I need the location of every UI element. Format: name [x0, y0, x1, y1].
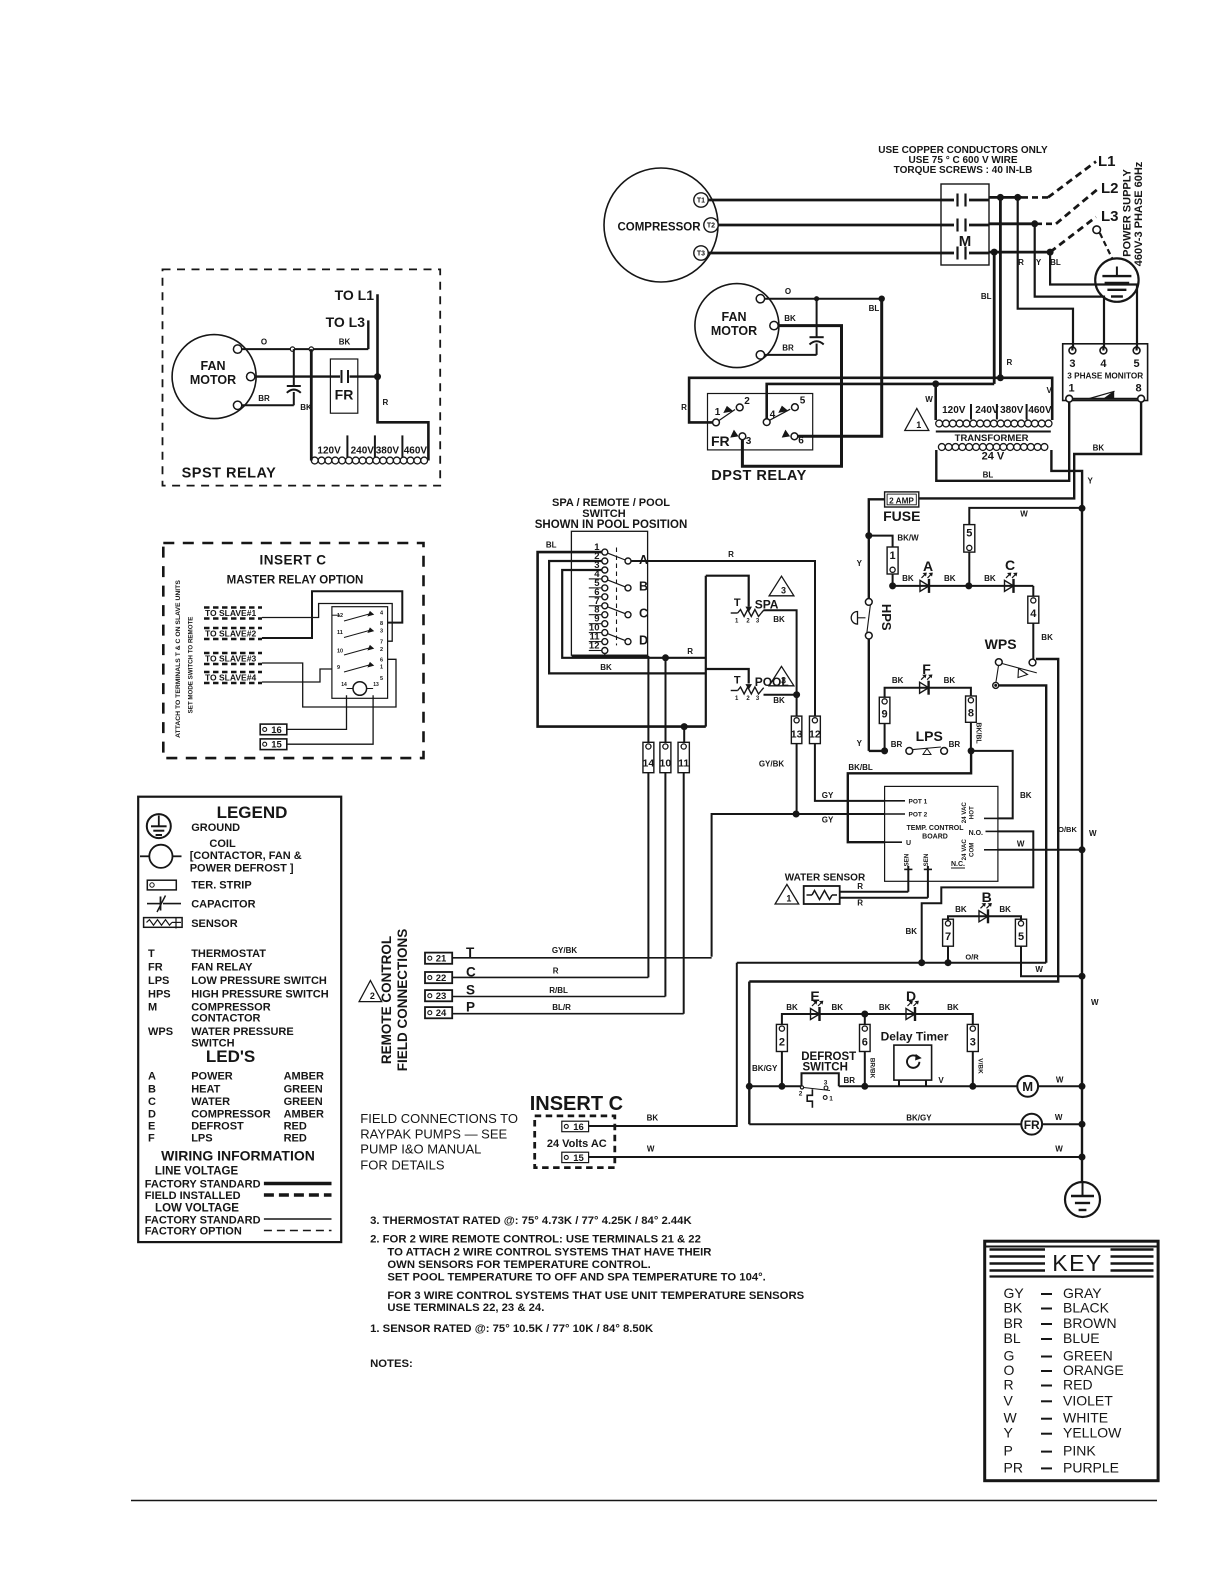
svg-text:LINE VOLTAGE: LINE VOLTAGE — [155, 1166, 239, 1178]
svg-text:GY/BK: GY/BK — [552, 946, 578, 955]
svg-text:GY: GY — [822, 791, 834, 800]
svg-text:N.O.: N.O. — [969, 830, 983, 837]
svg-text:3 PHASE MONITOR: 3 PHASE MONITOR — [1067, 372, 1143, 381]
svg-text:380V: 380V — [376, 446, 400, 457]
svg-text:RED: RED — [284, 1133, 307, 1145]
svg-text:SPST RELAY: SPST RELAY — [182, 466, 277, 482]
svg-text:TER. STRIP: TER. STRIP — [191, 880, 252, 892]
svg-text:MASTER RELAY OPTION: MASTER RELAY OPTION — [227, 575, 364, 587]
svg-text:R: R — [857, 882, 863, 891]
svg-text:CAPACITOR: CAPACITOR — [191, 899, 255, 911]
svg-text:10: 10 — [660, 758, 672, 770]
svg-text:BK: BK — [905, 927, 917, 936]
svg-text:BR: BR — [844, 1076, 856, 1085]
svg-text:PURPLE: PURPLE — [1063, 1459, 1119, 1475]
svg-text:5: 5 — [800, 396, 806, 407]
svg-text:BROWN: BROWN — [1063, 1315, 1117, 1331]
svg-text:4: 4 — [770, 410, 776, 421]
svg-text:GY: GY — [822, 816, 834, 825]
svg-text:WHITE: WHITE — [1063, 1410, 1108, 1426]
svg-text:L3: L3 — [1101, 208, 1119, 225]
svg-text:FAN RELAY: FAN RELAY — [191, 962, 253, 974]
svg-text:FACTORY STANDARD: FACTORY STANDARD — [145, 1179, 261, 1191]
svg-text:BL: BL — [1004, 1330, 1021, 1346]
svg-text:21: 21 — [436, 954, 447, 965]
svg-text:460V: 460V — [1028, 405, 1052, 416]
svg-text:2: 2 — [380, 647, 383, 653]
svg-text:23: 23 — [436, 991, 447, 1002]
svg-text:24 V: 24 V — [982, 451, 1005, 463]
svg-text:BK: BK — [832, 1003, 844, 1012]
svg-text:COMPRESSOR: COMPRESSOR — [191, 1108, 271, 1120]
svg-text:[CONTACTOR, FAN &: [CONTACTOR, FAN & — [190, 850, 302, 862]
svg-text:BK: BK — [944, 676, 956, 685]
svg-text:Y: Y — [857, 559, 863, 568]
svg-text:LPS: LPS — [916, 728, 943, 744]
svg-text:BK: BK — [339, 338, 351, 347]
svg-text:RAYPAK PUMPS — SEE: RAYPAK PUMPS — SEE — [360, 1126, 507, 1141]
svg-text:A: A — [148, 1071, 156, 1083]
svg-text:3: 3 — [824, 1079, 828, 1086]
svg-text:PR: PR — [1004, 1459, 1023, 1475]
svg-text:POT 1: POT 1 — [909, 799, 928, 806]
svg-text:W: W — [1035, 965, 1043, 974]
svg-text:W: W — [1017, 840, 1025, 849]
svg-text:T: T — [734, 675, 741, 687]
svg-text:1: 1 — [715, 407, 721, 418]
svg-text:15: 15 — [573, 1153, 584, 1164]
svg-text:GREEN: GREEN — [284, 1084, 323, 1096]
svg-text:A: A — [639, 553, 648, 567]
svg-text:FAN: FAN — [722, 310, 747, 324]
svg-text:HPS: HPS — [879, 604, 894, 631]
svg-text:BK: BK — [1093, 444, 1105, 453]
svg-text:L2: L2 — [1101, 180, 1119, 197]
svg-text:6: 6 — [862, 1037, 868, 1049]
svg-text:M: M — [148, 1002, 157, 1014]
svg-text:T: T — [734, 597, 741, 609]
svg-text:USE TERMINALS 22, 23 & 24.: USE TERMINALS 22, 23 & 24. — [387, 1302, 544, 1314]
svg-text:BK: BK — [944, 574, 956, 583]
svg-text:BL/R: BL/R — [552, 1003, 571, 1012]
svg-text:V: V — [1004, 1392, 1014, 1408]
svg-text:BK: BK — [1041, 633, 1053, 642]
svg-text:OWN SENSORS FOR TEMPERATURE CO: OWN SENSORS FOR TEMPERATURE CONTROL. — [387, 1259, 650, 1271]
svg-text:6: 6 — [798, 436, 804, 447]
svg-text:FR: FR — [335, 387, 354, 403]
svg-text:BL: BL — [981, 292, 992, 301]
svg-text:9: 9 — [337, 665, 340, 671]
svg-text:R: R — [681, 403, 687, 412]
svg-text:460V-3 PHASE 60Hz: 460V-3 PHASE 60Hz — [1133, 161, 1145, 266]
svg-text:BR: BR — [949, 740, 961, 749]
svg-text:5: 5 — [966, 528, 972, 540]
svg-text:D: D — [906, 988, 916, 1004]
svg-text:D: D — [148, 1108, 156, 1120]
svg-text:KEY: KEY — [1052, 1250, 1103, 1276]
svg-text:BL: BL — [869, 304, 880, 313]
svg-text:TO ATTACH 2 WIRE CONTROL SYSTE: TO ATTACH 2 WIRE CONTROL SYSTEMS THAT HA… — [387, 1246, 711, 1258]
svg-text:MOTOR: MOTOR — [190, 373, 236, 387]
svg-text:120V: 120V — [317, 446, 341, 457]
svg-text:BK/GY: BK/GY — [906, 1114, 932, 1123]
svg-text:HEAT: HEAT — [191, 1084, 220, 1096]
svg-text:T3: T3 — [697, 251, 705, 258]
svg-text:C: C — [148, 1096, 156, 1108]
svg-text:GY/BK: GY/BK — [759, 760, 785, 769]
svg-text:SENSOR: SENSOR — [191, 918, 238, 930]
svg-text:BK: BK — [1020, 791, 1032, 800]
svg-text:8: 8 — [380, 621, 383, 627]
svg-text:INSERT C: INSERT C — [259, 553, 326, 568]
svg-text:3: 3 — [746, 436, 752, 447]
svg-text:WPS: WPS — [985, 636, 1017, 652]
svg-text:SWITCH: SWITCH — [803, 1062, 848, 1074]
svg-text:BLUE: BLUE — [1063, 1330, 1100, 1346]
svg-text:7: 7 — [945, 931, 951, 943]
svg-text:B: B — [639, 580, 648, 594]
svg-text:8: 8 — [1135, 383, 1141, 395]
svg-text:3: 3 — [380, 629, 383, 635]
svg-text:WATER: WATER — [191, 1096, 230, 1108]
svg-text:12: 12 — [589, 641, 600, 652]
svg-text:B: B — [148, 1084, 156, 1096]
svg-text:22: 22 — [436, 973, 447, 984]
svg-text:GREEN: GREEN — [284, 1096, 323, 1108]
svg-text:2 AMP: 2 AMP — [889, 497, 914, 506]
svg-text:T1: T1 — [697, 198, 705, 205]
svg-text:7: 7 — [380, 640, 383, 646]
svg-text:GROUND: GROUND — [191, 822, 240, 834]
svg-text:W: W — [647, 1145, 655, 1154]
svg-text:TO L3: TO L3 — [326, 314, 366, 330]
svg-text:D: D — [639, 633, 648, 647]
svg-text:BOARD: BOARD — [922, 834, 948, 841]
svg-text:RED: RED — [284, 1121, 307, 1133]
svg-text:6: 6 — [380, 658, 383, 664]
svg-text:POWER: POWER — [191, 1071, 233, 1083]
svg-text:R: R — [383, 398, 389, 407]
svg-text:BK: BK — [784, 314, 796, 323]
svg-text:13: 13 — [791, 729, 803, 741]
svg-text:BK/W: BK/W — [897, 534, 919, 543]
svg-text:R: R — [1007, 358, 1013, 367]
svg-text:12: 12 — [337, 613, 343, 619]
svg-text:COIL: COIL — [209, 838, 236, 850]
svg-text:NOTES:: NOTES: — [370, 1358, 413, 1370]
svg-text:R: R — [1018, 258, 1024, 267]
svg-text:B: B — [982, 889, 992, 905]
svg-text:C: C — [639, 607, 648, 621]
svg-text:Y: Y — [1088, 477, 1094, 486]
svg-text:T2: T2 — [707, 223, 715, 230]
svg-text:LOW VOLTAGE: LOW VOLTAGE — [155, 1203, 239, 1215]
svg-text:O: O — [261, 338, 267, 347]
svg-text:16: 16 — [271, 725, 282, 736]
svg-text:3: 3 — [781, 585, 786, 595]
svg-text:W: W — [1055, 1145, 1063, 1154]
svg-text:BR: BR — [258, 394, 270, 403]
svg-text:SEN: SEN — [923, 853, 930, 866]
svg-text:AMBER: AMBER — [284, 1071, 324, 1083]
svg-text:R: R — [857, 899, 863, 908]
svg-text:LED'S: LED'S — [206, 1047, 255, 1066]
svg-text:1: 1 — [916, 420, 921, 430]
svg-text:BR: BR — [891, 740, 903, 749]
svg-text:TEMP. CONTROL: TEMP. CONTROL — [906, 825, 964, 832]
svg-text:FR: FR — [1024, 1118, 1040, 1132]
svg-text:SET POOL TEMPERATURE TO OFF AN: SET POOL TEMPERATURE TO OFF AND SPA TEMP… — [387, 1272, 765, 1284]
svg-text:POWER SUPPLY: POWER SUPPLY — [1121, 169, 1133, 257]
svg-text:BK: BK — [600, 663, 612, 672]
svg-text:240V: 240V — [975, 405, 999, 416]
svg-text:SEN: SEN — [903, 853, 910, 866]
svg-text:P: P — [1004, 1443, 1013, 1459]
svg-text:3: 3 — [781, 675, 786, 685]
svg-text:DPST RELAY: DPST RELAY — [711, 468, 807, 484]
svg-text:M: M — [1022, 1079, 1033, 1094]
svg-text:S: S — [466, 983, 475, 998]
svg-text:4: 4 — [1100, 358, 1107, 370]
svg-text:W: W — [1055, 1113, 1063, 1122]
svg-text:ATTACH TO TERMINALS T & C ON S: ATTACH TO TERMINALS T & C ON SLAVE UNITS — [175, 580, 182, 738]
svg-text:BK/BL: BK/BL — [975, 722, 982, 744]
svg-text:FOR DETAILS: FOR DETAILS — [360, 1158, 445, 1173]
svg-text:W: W — [1089, 829, 1097, 838]
svg-text:R: R — [728, 550, 734, 559]
svg-text:11: 11 — [337, 630, 343, 636]
svg-text:FACTORY OPTION: FACTORY OPTION — [145, 1226, 242, 1238]
svg-text:FIELD CONNECTIONS TO: FIELD CONNECTIONS TO — [360, 1111, 518, 1126]
svg-text:FR: FR — [711, 433, 730, 449]
svg-text:BK: BK — [955, 905, 967, 914]
svg-text:4: 4 — [1030, 608, 1037, 620]
svg-text:BR/BK: BR/BK — [869, 1058, 876, 1079]
svg-text:COMPRESSOR: COMPRESSOR — [617, 222, 701, 234]
svg-text:O/R: O/R — [965, 953, 979, 962]
svg-text:15: 15 — [271, 740, 282, 751]
svg-text:16: 16 — [573, 1122, 584, 1133]
svg-text:FACTORY STANDARD: FACTORY STANDARD — [145, 1214, 261, 1226]
svg-text:BR: BR — [1004, 1315, 1023, 1331]
svg-text:PUMP I&O MANUAL: PUMP I&O MANUAL — [360, 1142, 481, 1157]
svg-text:E: E — [810, 988, 819, 1004]
svg-text:TORQUE SCREWS : 40 IN-LB: TORQUE SCREWS : 40 IN-LB — [894, 165, 1033, 176]
svg-text:WATER PRESSURE: WATER PRESSURE — [191, 1026, 293, 1038]
svg-text:R: R — [1004, 1377, 1014, 1393]
svg-text:R/BL: R/BL — [549, 986, 568, 995]
svg-text:TO SLAVE#4: TO SLAVE#4 — [205, 673, 256, 683]
svg-text:1: 1 — [1068, 383, 1074, 395]
svg-text:TO SLAVE#1: TO SLAVE#1 — [205, 608, 256, 618]
svg-text:5: 5 — [1018, 931, 1024, 943]
svg-text:AMBER: AMBER — [284, 1108, 324, 1120]
svg-text:13: 13 — [373, 682, 379, 688]
svg-text:W: W — [925, 395, 933, 404]
svg-text:11: 11 — [678, 758, 689, 770]
svg-text:HIGH PRESSURE SWITCH: HIGH PRESSURE SWITCH — [191, 989, 329, 1001]
svg-text:V: V — [938, 1076, 944, 1085]
svg-text:DEFROST: DEFROST — [191, 1121, 244, 1133]
svg-text:2. FOR 2 WIRE REMOTE CONTROL:: 2. FOR 2 WIRE REMOTE CONTROL: USE TERMIN… — [370, 1234, 701, 1246]
svg-text:N.C.: N.C. — [951, 861, 965, 868]
svg-text:8: 8 — [968, 707, 974, 719]
svg-text:BK: BK — [892, 676, 904, 685]
svg-text:BK: BK — [984, 574, 996, 583]
svg-text:BK: BK — [947, 1003, 959, 1012]
svg-text:240V: 240V — [351, 446, 375, 457]
svg-text:U: U — [906, 840, 911, 847]
svg-text:RED: RED — [1063, 1377, 1093, 1393]
svg-text:FOR 3 WIRE CONTROL SYSTEMS THA: FOR 3 WIRE CONTROL SYSTEMS THAT USE UNIT… — [387, 1290, 804, 1302]
svg-text:FIELD CONNECTIONS: FIELD CONNECTIONS — [395, 929, 410, 1072]
svg-text:E: E — [148, 1121, 155, 1133]
svg-text:BK: BK — [999, 905, 1011, 914]
svg-text:R: R — [553, 967, 559, 976]
svg-text:1: 1 — [829, 1096, 833, 1103]
svg-text:1: 1 — [890, 550, 896, 562]
svg-text:TO SLAVE#2: TO SLAVE#2 — [205, 629, 256, 639]
svg-text:LEGEND: LEGEND — [217, 803, 288, 822]
svg-text:3: 3 — [970, 1037, 976, 1049]
svg-text:TRANSFORMER: TRANSFORMER — [955, 433, 1029, 444]
svg-text:Y: Y — [1036, 258, 1042, 267]
svg-text:BK: BK — [786, 1003, 798, 1012]
svg-text:VIOLET: VIOLET — [1063, 1392, 1113, 1408]
svg-text:BK: BK — [773, 615, 785, 624]
svg-text:O/BK: O/BK — [1058, 825, 1077, 834]
svg-text:MOTOR: MOTOR — [711, 324, 757, 338]
svg-text:2: 2 — [370, 991, 375, 1001]
svg-text:HPS: HPS — [148, 989, 171, 1001]
svg-text:9: 9 — [882, 709, 888, 721]
svg-text:WATER SENSOR: WATER SENSOR — [785, 873, 866, 884]
svg-text:1: 1 — [786, 894, 791, 904]
svg-text:WIRING INFORMATION: WIRING INFORMATION — [161, 1148, 315, 1164]
svg-text:24: 24 — [436, 1008, 447, 1019]
svg-text:24 Volts AC: 24 Volts AC — [547, 1138, 607, 1150]
svg-text:M: M — [959, 233, 972, 250]
svg-text:BK: BK — [647, 1114, 659, 1123]
svg-text:YELLOW: YELLOW — [1063, 1425, 1122, 1441]
svg-text:BL: BL — [546, 541, 557, 550]
svg-text:3: 3 — [1069, 358, 1075, 370]
svg-text:460V: 460V — [404, 446, 428, 457]
svg-text:LPS: LPS — [148, 975, 169, 987]
svg-text:FR: FR — [148, 962, 163, 974]
svg-text:O: O — [785, 287, 791, 296]
svg-text:BK/GY: BK/GY — [752, 1064, 778, 1073]
svg-text:1. SENSOR RATED @: 75° 10.5K /: 1. SENSOR RATED @: 75° 10.5K / 77° 10K /… — [370, 1323, 654, 1335]
svg-text:Delay Timer: Delay Timer — [881, 1030, 949, 1044]
svg-text:BR: BR — [782, 344, 794, 353]
svg-text:14: 14 — [341, 682, 347, 688]
svg-text:R: R — [687, 647, 693, 656]
svg-text:2: 2 — [799, 1091, 803, 1098]
svg-text:10: 10 — [337, 649, 343, 655]
svg-text:24 VAC: 24 VAC — [961, 839, 968, 861]
svg-text:HOT: HOT — [969, 806, 976, 819]
svg-text:W: W — [1004, 1410, 1018, 1426]
svg-text:SET MODE SWITCH TO REMOTE: SET MODE SWITCH TO REMOTE — [188, 617, 195, 714]
svg-text:BL: BL — [1050, 258, 1061, 267]
svg-text:BK: BK — [902, 574, 914, 583]
svg-text:2: 2 — [744, 396, 750, 407]
svg-text:L1: L1 — [1098, 153, 1116, 170]
svg-text:TO L1: TO L1 — [335, 287, 375, 303]
svg-text:CONTACTOR: CONTACTOR — [191, 1013, 260, 1025]
svg-text:1: 1 — [380, 665, 383, 671]
svg-text:FUSE: FUSE — [883, 508, 920, 524]
svg-text:380V: 380V — [1000, 405, 1024, 416]
svg-text:SHOWN IN POOL POSITION: SHOWN IN POOL POSITION — [535, 519, 688, 531]
svg-text:POWER DEFROST ]: POWER DEFROST ] — [190, 863, 294, 875]
svg-text:LOW PRESSURE SWITCH: LOW PRESSURE SWITCH — [191, 975, 327, 987]
svg-text:COM: COM — [969, 843, 976, 857]
svg-text:REMOTE CONTROL: REMOTE CONTROL — [379, 936, 394, 1064]
svg-text:W: W — [1020, 510, 1028, 519]
svg-text:W: W — [1091, 998, 1099, 1007]
svg-text:12: 12 — [809, 729, 821, 741]
svg-text:BK: BK — [773, 696, 785, 705]
svg-text:FAN: FAN — [201, 359, 226, 373]
svg-text:BK: BK — [1004, 1300, 1023, 1316]
svg-text:BK/BL: BK/BL — [848, 763, 873, 772]
svg-text:24 VAC: 24 VAC — [961, 802, 968, 824]
svg-text:PINK: PINK — [1063, 1443, 1096, 1459]
svg-text:Y: Y — [1004, 1425, 1014, 1441]
svg-text:TO SLAVE#3: TO SLAVE#3 — [205, 654, 256, 664]
svg-text:14: 14 — [643, 758, 655, 770]
svg-text:V: V — [1047, 386, 1053, 395]
svg-text:5: 5 — [380, 676, 383, 682]
svg-text:120V: 120V — [942, 405, 966, 416]
svg-text:P: P — [466, 1000, 475, 1015]
svg-text:3. THERMOSTAT RATED @: 75° 4.7: 3. THERMOSTAT RATED @: 75° 4.73K / 77° 4… — [370, 1215, 692, 1227]
svg-text:BL: BL — [983, 471, 994, 480]
svg-text:LPS: LPS — [191, 1133, 212, 1145]
svg-text:INSERT C: INSERT C — [530, 1093, 623, 1115]
svg-text:BK: BK — [879, 1003, 891, 1012]
svg-text:2: 2 — [779, 1037, 785, 1049]
svg-text:W: W — [1056, 1076, 1064, 1085]
svg-text:THERMOSTAT: THERMOSTAT — [191, 948, 266, 960]
svg-text:5: 5 — [1134, 358, 1140, 370]
svg-text:WPS: WPS — [148, 1026, 173, 1038]
svg-text:BLACK: BLACK — [1063, 1300, 1110, 1316]
svg-text:F: F — [148, 1133, 155, 1145]
svg-text:F: F — [922, 661, 931, 677]
svg-text:FIELD INSTALLED: FIELD INSTALLED — [145, 1190, 241, 1202]
svg-text:T: T — [148, 948, 155, 960]
svg-text:Y: Y — [857, 739, 863, 748]
svg-text:A: A — [923, 558, 933, 574]
svg-text:C: C — [1005, 557, 1015, 573]
svg-text:V/BK: V/BK — [977, 1058, 984, 1074]
svg-text:POT 2: POT 2 — [909, 812, 928, 819]
